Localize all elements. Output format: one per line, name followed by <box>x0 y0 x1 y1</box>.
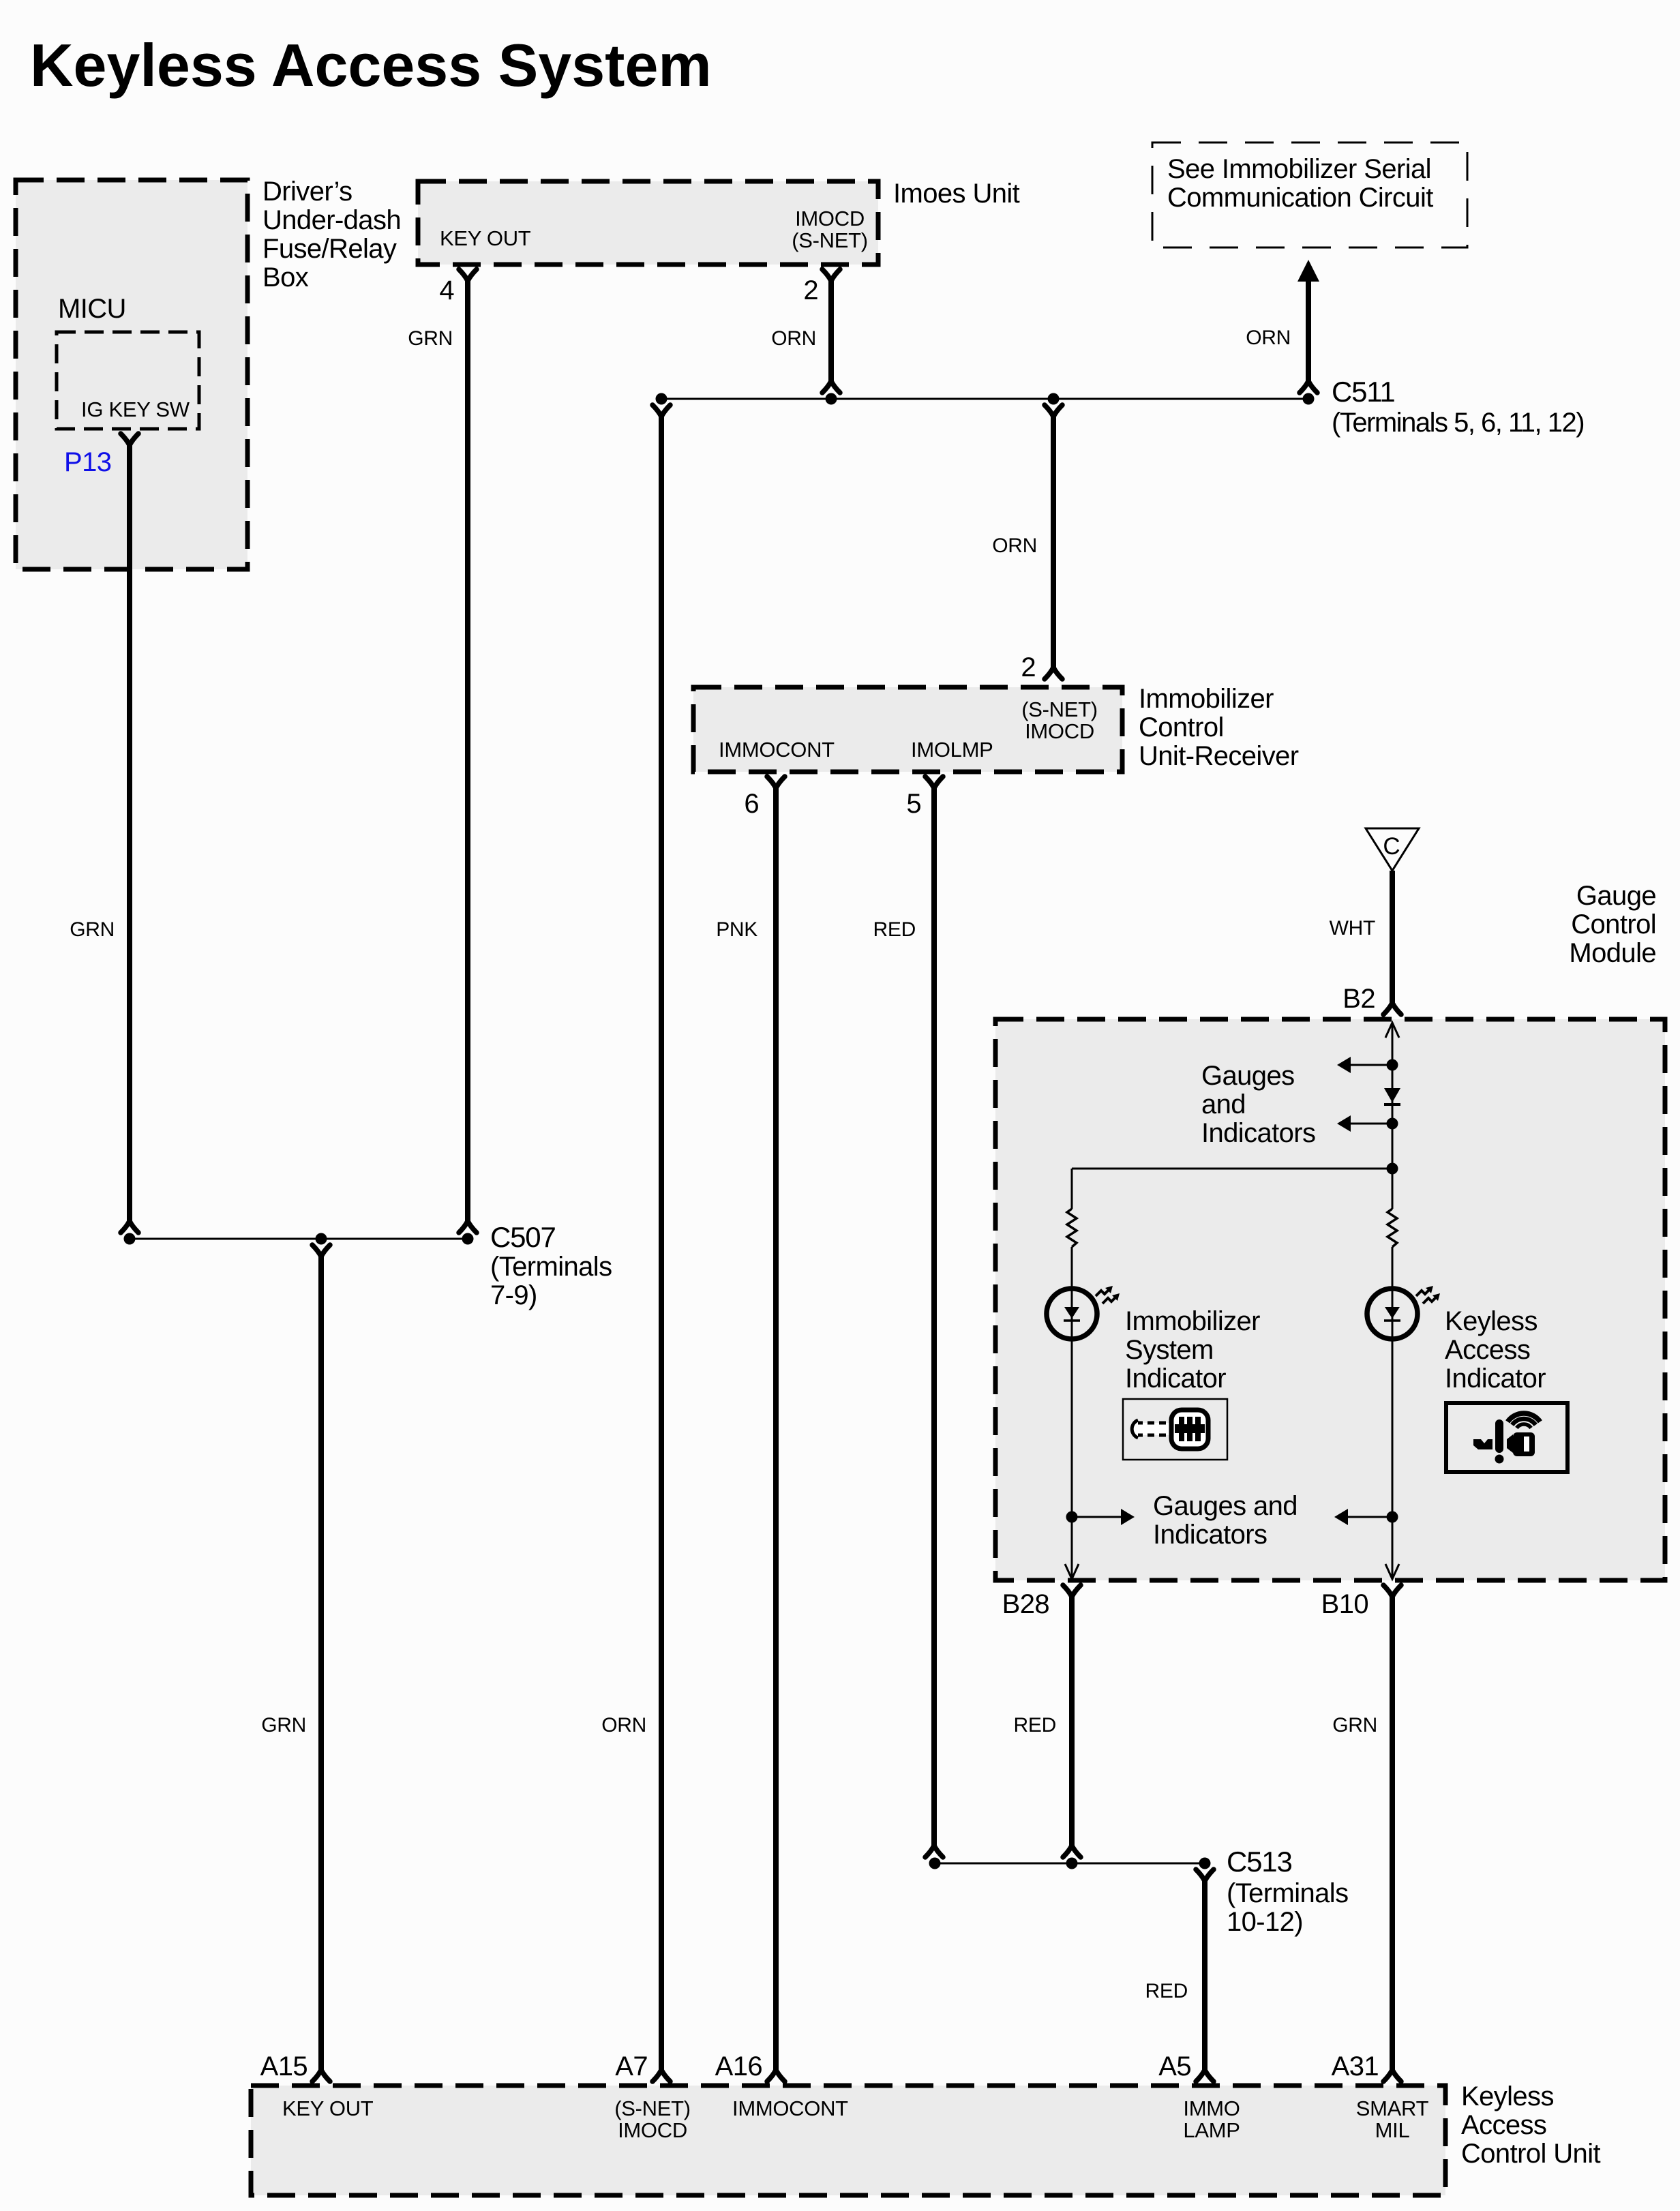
junction S-NET bus left end <box>656 393 667 405</box>
svg-text:ORN: ORN <box>1246 327 1291 349</box>
keyless access indicator icon <box>1446 1403 1567 1472</box>
svg-text:(Terminals 5, 6, 11, 12): (Terminals 5, 6, 11, 12) <box>1332 408 1584 438</box>
junction C507 to A15 <box>316 1233 327 1245</box>
svg-text:GRN: GRN <box>1332 1714 1377 1736</box>
wire S-NET bus <box>661 398 1308 400</box>
arrowhead to See Immobilizer Serial Communication Circuit <box>1297 260 1319 282</box>
svg-text:GaugeControlModule: GaugeControlModule <box>1569 881 1656 968</box>
pin B2 connector <box>1383 1003 1401 1014</box>
resistor R1 <box>1067 1209 1077 1247</box>
pin 5 connector (IMOLMP) <box>925 777 943 788</box>
wire WHT from antenna to B2 <box>1390 871 1395 1003</box>
arrow left to gauges and indicators <box>1347 1516 1392 1518</box>
svg-text:Keyless Access System: Keyless Access System <box>30 31 712 99</box>
down arrowhead at B28 exit <box>1065 1564 1079 1579</box>
antenna symbol C <box>1366 828 1419 871</box>
svg-text:ORN: ORN <box>992 535 1037 557</box>
wire RED from B28 to C513 <box>1069 1597 1075 1846</box>
wire GRN from IG KEY SW to C507 <box>127 445 132 1221</box>
svg-text:WHT: WHT <box>1330 917 1375 939</box>
svg-text:IMOLMP: IMOLMP <box>911 738 993 762</box>
pin A31 connector <box>1383 2070 1401 2081</box>
internal wire from B2 with up arrowhead <box>1385 1023 1399 1038</box>
Imoes Unit box <box>418 181 878 265</box>
wire ORN from S-NET bus to A7 <box>659 417 664 2070</box>
svg-text:Imoes Unit: Imoes Unit <box>893 179 1020 209</box>
svg-text:KEY OUT: KEY OUT <box>282 2096 374 2120</box>
connector at C511 <box>1300 381 1317 393</box>
connector leaving bus to receiver <box>1045 405 1062 417</box>
svg-text:A16: A16 <box>715 2051 762 2081</box>
svg-text:A15: A15 <box>260 2051 307 2081</box>
junction to indicator branch <box>1387 1163 1398 1175</box>
svg-text:B10: B10 <box>1321 1589 1368 1619</box>
svg-text:GRN: GRN <box>408 327 453 350</box>
junction S-NET bus at receiver drop <box>1048 393 1060 405</box>
svg-text:MICU: MICU <box>58 294 126 324</box>
svg-text:See Immobilizer SerialCommunic: See Immobilizer SerialCommunication Circ… <box>1167 154 1433 213</box>
svg-text:C: C <box>1383 833 1400 860</box>
connector at C507 right end <box>459 1221 477 1233</box>
connector at S-NET bus (from Imoes) <box>822 381 840 393</box>
wire C513 bus <box>935 1863 1205 1865</box>
LED1 immobilizer system indicator lamp <box>1047 1286 1120 1339</box>
pin 4 connector (Imoes KEY OUT) <box>459 269 477 281</box>
svg-text:C513: C513 <box>1227 1846 1292 1878</box>
driver's under-dash fuse/relay box <box>16 180 247 569</box>
resistor R2 <box>1387 1209 1397 1247</box>
arrow to gauges and indicators 2 <box>1349 1123 1392 1125</box>
svg-text:B28: B28 <box>1002 1589 1049 1619</box>
svg-text:C507: C507 <box>490 1221 556 1253</box>
svg-text:IMOCD(S-NET): IMOCD(S-NET) <box>792 207 868 252</box>
junction gauges feed 1 <box>1387 1059 1398 1071</box>
svg-text:4: 4 <box>439 275 454 305</box>
connector pin of IG KEY SW <box>121 434 138 445</box>
svg-text:IMMOCONT: IMMOCONT <box>719 738 835 762</box>
junction gauges feed 2 <box>1387 1118 1398 1130</box>
junction C513 right <box>1199 1858 1211 1869</box>
svg-text:ORN: ORN <box>771 327 816 350</box>
svg-text:2: 2 <box>803 275 818 305</box>
junction C513 left <box>929 1858 941 1869</box>
svg-text:PNK: PNK <box>716 918 757 941</box>
wire RED from C513 to A5 <box>1202 1881 1207 2070</box>
junction C507 left <box>124 1233 136 1245</box>
Keyless Access Control Unit box <box>251 2086 1445 2195</box>
wire GRN from C507 to A15 <box>318 1257 324 2070</box>
svg-text:IMMOLAMP: IMMOLAMP <box>1183 2096 1240 2142</box>
svg-text:ORN: ORN <box>601 1714 646 1736</box>
svg-text:GRN: GRN <box>70 918 115 941</box>
wire PNK from pin 6 to A16 <box>773 788 779 2070</box>
svg-text:A7: A7 <box>615 2051 648 2081</box>
wire ORN from C511 up to serial circuit <box>1306 282 1311 381</box>
pin 2 connector (Imoes IMOCD) <box>822 269 840 281</box>
connector leaving bus to A7 <box>652 405 670 417</box>
svg-text:IG KEY SW: IG KEY SW <box>81 397 190 421</box>
junction lower right <box>1387 1511 1398 1523</box>
immobilizer indicator key icon <box>1123 1399 1227 1460</box>
pin A16 connector <box>767 2070 785 2081</box>
connector leaving C507 to A15 <box>312 1245 330 1257</box>
junction C507 right <box>462 1233 474 1245</box>
Gauge Control Module box <box>995 1019 1665 1580</box>
wire C507 bus <box>130 1238 468 1240</box>
wire internal branch horizontal <box>1072 1168 1392 1170</box>
pin B28 connector <box>1063 1585 1081 1597</box>
wire from R1 through LED1 to B28 <box>1071 1247 1073 1579</box>
svg-text:C511: C511 <box>1332 376 1395 408</box>
arrow right to gauges and indicators <box>1072 1516 1122 1518</box>
svg-text:B2: B2 <box>1342 984 1375 1014</box>
connector at C513 left end <box>925 1846 943 1857</box>
svg-text:IMMOCONT: IMMOCONT <box>732 2096 848 2120</box>
svg-text:(S-NET)IMOCD: (S-NET)IMOCD <box>614 2096 691 2142</box>
svg-text:GRN: GRN <box>261 1714 306 1736</box>
pin A15 connector <box>312 2070 330 2081</box>
svg-text:A5: A5 <box>1158 2051 1191 2081</box>
wire ORN from Imoes pin 2 to S-NET bus <box>828 281 834 381</box>
junction lower left <box>1066 1511 1078 1523</box>
connector leaving C513 to A5 <box>1196 1869 1214 1881</box>
Immobilizer Control Unit-Receiver box <box>693 687 1122 772</box>
svg-text:RED: RED <box>1014 1714 1056 1736</box>
pin A7 connector <box>652 2070 670 2081</box>
wire ORN from bus to Immobilizer receiver pin 2 <box>1051 417 1056 667</box>
svg-text:5: 5 <box>906 789 921 819</box>
down arrowhead at B10 exit <box>1385 1564 1399 1579</box>
pin A5 connector <box>1196 2070 1214 2081</box>
switch IG KEY SW box <box>57 332 199 429</box>
connector at C507 left end <box>121 1221 138 1233</box>
arrow to gauges and indicators 1 <box>1349 1064 1392 1066</box>
wire RED from pin 5 to C513 <box>931 788 937 1846</box>
svg-text:6: 6 <box>744 789 759 819</box>
connector at C513 middle <box>1063 1846 1081 1857</box>
wire GRN from B10 to A31 <box>1390 1597 1395 2070</box>
svg-text:P13: P13 <box>64 447 111 477</box>
pin 6 connector (IMMOCONT) <box>767 777 785 788</box>
diode D1 <box>1384 1088 1400 1102</box>
svg-text:2: 2 <box>1021 652 1036 682</box>
See Immobilizer Serial Communication Circuit box <box>1152 142 1467 247</box>
pin 2 connector (receiver IMOCD) <box>1045 667 1062 679</box>
wire from R2 through LED2 to B10 <box>1392 1247 1394 1579</box>
LED2 keyless access indicator lamp <box>1367 1286 1440 1339</box>
wire GRN from Imoes pin 4 to C507 <box>465 281 470 1221</box>
junction C511 <box>1303 393 1315 405</box>
svg-text:A31: A31 <box>1332 2051 1379 2081</box>
svg-text:RED: RED <box>1145 1980 1188 2002</box>
wire to resistor R1 <box>1071 1169 1073 1209</box>
svg-text:RED: RED <box>873 918 916 941</box>
pin B10 connector <box>1383 1585 1401 1597</box>
svg-text:KEY OUT: KEY OUT <box>440 226 531 250</box>
junction C513 middle <box>1066 1858 1078 1869</box>
junction S-NET bus at Imoes drop <box>826 393 837 405</box>
svg-text:(S-NET)IMOCD: (S-NET)IMOCD <box>1021 697 1098 743</box>
